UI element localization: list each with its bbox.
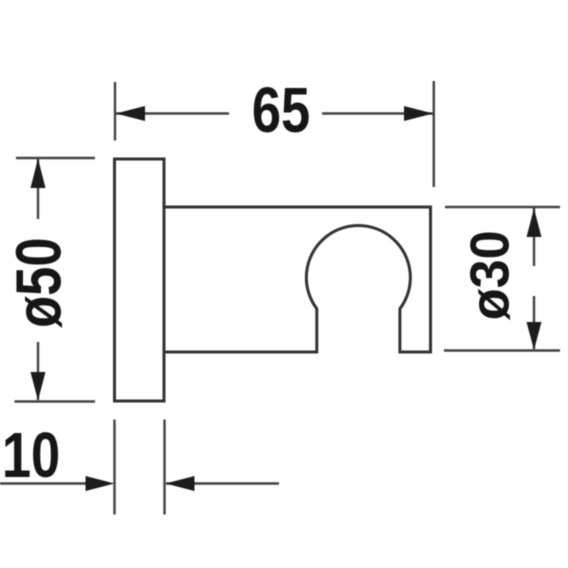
dimension o50: dimension line upper segment <box>37 159 39 219</box>
dimension o30: bottom extension line <box>444 349 560 351</box>
dimension 10: left dimension line <box>0 482 87 484</box>
dimension 10: right dimension line <box>166 482 279 484</box>
dimension 10: value label <box>2 420 60 491</box>
dimension 10: left extension line <box>113 420 115 515</box>
dimension o30: dimension line upper segment <box>533 208 535 266</box>
dimension o50: top arrowhead <box>31 159 46 189</box>
svg-text:ø50: ø50 <box>3 237 74 327</box>
dimension o30: top extension line <box>445 206 560 208</box>
dimension 10: left arrowhead (pointing right) <box>86 476 115 491</box>
dimension 65: left extension line <box>114 82 116 141</box>
dimension o30: dimension line lower segment <box>533 296 535 349</box>
dimension 65: right arrowhead <box>404 106 433 121</box>
svg-text:ø30: ø30 <box>459 230 521 320</box>
dimension o50: bottom extension line <box>15 400 96 402</box>
dimension 65: value label <box>252 75 310 146</box>
dimension o30: bottom arrowhead <box>527 322 542 350</box>
dimension 10: right arrowhead (pointing left) <box>166 476 195 491</box>
dimension o50: value label <box>3 237 74 327</box>
dimension o50: bottom arrowhead <box>31 372 46 401</box>
wall plate (side view rectangle) <box>115 159 165 401</box>
dimension 65: right extension line <box>433 81 435 187</box>
dimension 65: dimension line right segment <box>322 112 433 114</box>
dimension o30: top arrowhead <box>527 209 542 238</box>
dimension 65: dimension line left segment <box>116 112 229 114</box>
dimension o30: value label <box>459 230 521 320</box>
dimension 65: left arrowhead <box>116 106 145 121</box>
holder arm with keyhole cutout <box>164 207 431 352</box>
dimension o50: top extension line <box>16 157 95 159</box>
svg-text:65: 65 <box>252 75 310 146</box>
svg-text:10: 10 <box>2 420 60 491</box>
dimension o50: dimension line lower segment <box>37 342 39 400</box>
dimension 10: right extension line <box>163 420 165 515</box>
